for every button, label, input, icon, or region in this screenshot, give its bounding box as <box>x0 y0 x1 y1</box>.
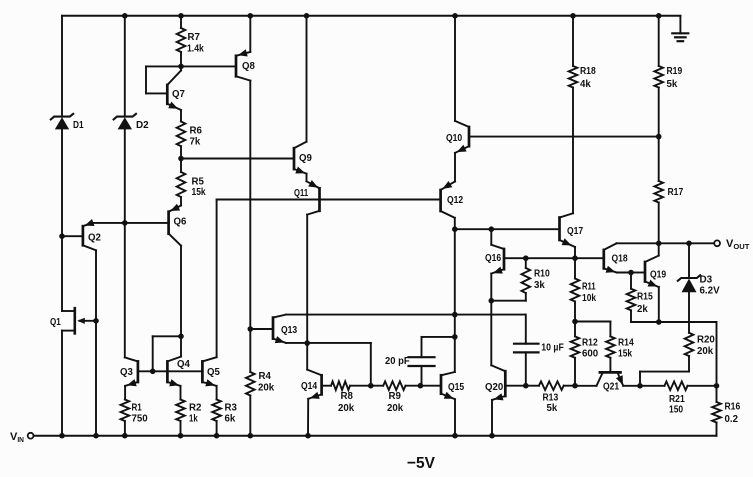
svg-text:Q16: Q16 <box>485 252 501 264</box>
svg-text:Q11: Q11 <box>294 187 308 199</box>
svg-text:15k: 15k <box>618 348 632 360</box>
svg-text:R20: R20 <box>697 333 715 345</box>
svg-text:R18: R18 <box>580 65 596 77</box>
svg-text:Q17: Q17 <box>567 225 583 237</box>
svg-text:1.4k: 1.4k <box>187 43 204 55</box>
svg-text:−5V: −5V <box>407 455 435 472</box>
svg-text:5k: 5k <box>667 78 678 90</box>
svg-text:Q7: Q7 <box>172 88 185 100</box>
svg-text:Q9: Q9 <box>299 152 312 164</box>
svg-text:0.2: 0.2 <box>725 413 739 425</box>
svg-text:3k: 3k <box>534 279 545 291</box>
svg-text:R11: R11 <box>582 281 596 293</box>
svg-text:Q4: Q4 <box>177 358 190 370</box>
svg-text:Q5: Q5 <box>207 366 220 378</box>
svg-text:Q1: Q1 <box>50 316 61 328</box>
svg-text:Q14: Q14 <box>301 380 317 392</box>
svg-text:750: 750 <box>132 413 148 425</box>
svg-text:R17: R17 <box>668 186 684 198</box>
svg-text:600: 600 <box>582 348 598 360</box>
svg-text:R15: R15 <box>637 291 653 303</box>
svg-text:7k: 7k <box>190 135 201 147</box>
svg-text:D2: D2 <box>136 119 149 131</box>
svg-text:Q6: Q6 <box>174 215 187 227</box>
svg-text:20k: 20k <box>387 402 403 414</box>
svg-text:Q8: Q8 <box>242 60 255 72</box>
svg-text:Q2: Q2 <box>88 232 101 244</box>
svg-text:R8: R8 <box>341 390 354 402</box>
svg-text:Q21: Q21 <box>603 381 619 393</box>
svg-text:20 pF: 20 pF <box>385 355 410 367</box>
svg-text:15k: 15k <box>192 186 206 198</box>
svg-text:2k: 2k <box>637 303 648 315</box>
svg-text:D1: D1 <box>73 119 84 131</box>
svg-text:R19: R19 <box>667 65 683 77</box>
svg-text:R16: R16 <box>725 401 741 413</box>
svg-text:20k: 20k <box>338 402 354 414</box>
svg-text:10 µF: 10 µF <box>541 341 564 353</box>
svg-text:Q10: Q10 <box>446 132 462 144</box>
svg-text:R7: R7 <box>188 31 201 43</box>
svg-text:Q20: Q20 <box>485 381 503 393</box>
svg-text:20k: 20k <box>258 381 274 393</box>
svg-text:R4: R4 <box>259 370 272 382</box>
svg-text:Q15: Q15 <box>448 381 464 393</box>
svg-text:4k: 4k <box>580 78 591 90</box>
svg-text:150: 150 <box>669 404 683 416</box>
svg-text:R10: R10 <box>534 268 550 280</box>
svg-text:20k: 20k <box>697 345 713 357</box>
svg-text:Q13: Q13 <box>281 324 297 336</box>
svg-text:10k: 10k <box>582 292 596 304</box>
svg-text:5k: 5k <box>547 402 558 414</box>
svg-text:Q3: Q3 <box>120 366 133 378</box>
svg-text:Q18: Q18 <box>612 253 628 265</box>
svg-text:6.2V: 6.2V <box>700 284 720 296</box>
svg-text:R9: R9 <box>389 390 402 402</box>
svg-text:1k: 1k <box>189 413 198 425</box>
svg-text:6k: 6k <box>225 413 236 425</box>
svg-text:Q19: Q19 <box>650 269 666 281</box>
svg-text:Q12: Q12 <box>447 194 463 206</box>
